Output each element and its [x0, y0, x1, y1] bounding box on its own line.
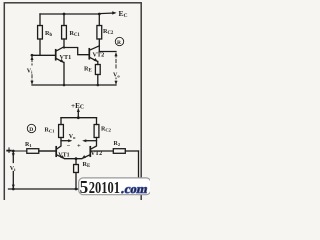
- svg-text:VT1: VT1: [60, 54, 72, 61]
- resistor RE bottom: [75, 159, 77, 165]
- transistor VT2: [88, 49, 90, 59]
- svg-text:20101: 20101: [89, 178, 120, 197]
- wire Vo left lead with arrow: [61, 140, 70, 142]
- node Vi junction: [31, 54, 34, 57]
- label Vo top: [113, 69, 122, 78]
- svg-text:5: 5: [80, 177, 89, 197]
- wire Vo indicator dashed: [115, 54, 117, 82]
- wire right drop to ground rail: [138, 151, 140, 189]
- svg-text:VT1: VT1: [58, 153, 69, 159]
- wire top supply rail: [40, 13, 99, 15]
- node Vi junction bottom: [12, 150, 15, 153]
- wire Vi indicator bottom: [12, 151, 14, 163]
- wire bottom ground rail: [9, 188, 139, 190]
- svg-text:VT2: VT2: [93, 51, 105, 58]
- svg-text:RC2: RC2: [101, 127, 112, 133]
- wire EC stub with up arrow: [77, 111, 79, 118]
- wire Vo tap from VT2 collector: [99, 51, 116, 53]
- resistor RE: [95, 65, 100, 75]
- resistor RC2 bottom: [96, 118, 98, 125]
- wire Vi indicator dashed: [31, 59, 33, 83]
- svg-text:−: −: [67, 143, 71, 150]
- svg-text:+: +: [77, 143, 81, 150]
- wire EC arrow: [99, 12, 114, 15]
- svg-text:VT2: VT2: [91, 151, 102, 157]
- resistor RC2: [98, 13, 101, 16]
- wire coupling VT1 collector to VT2 base: [64, 48, 89, 55]
- label Vi top: [27, 66, 35, 74]
- svg-text:.com: .com: [120, 182, 149, 196]
- resistor RC1 bottom: [60, 118, 62, 125]
- transistor VT1 bottom: [55, 147, 57, 156]
- svg-text:Vi: Vi: [10, 166, 16, 172]
- transistor VT1: [55, 50, 57, 60]
- border frame: [4, 3, 141, 213]
- svg-text:R1: R1: [25, 142, 32, 148]
- circled D mark: [27, 124, 35, 132]
- wire bottom rail top circuit: [32, 84, 116, 86]
- resistor Rb: [39, 14, 41, 26]
- svg-text:RC1: RC1: [45, 128, 56, 134]
- circled R mark: [115, 37, 123, 45]
- svg-text:Vo: Vo: [69, 134, 76, 140]
- resistor R1: [7, 150, 27, 152]
- wire emitter rail bottom: [65, 158, 82, 160]
- label plus input: [8, 148, 10, 153]
- transistor VT2 bottom: [89, 147, 91, 156]
- node EC arrowhead: [112, 11, 116, 14]
- svg-text:D: D: [29, 127, 33, 133]
- wire top rail bottom circuit: [61, 117, 97, 119]
- resistor RC1: [63, 13, 66, 16]
- svg-text:Vi: Vi: [27, 69, 33, 75]
- watermark 520101.com: [79, 177, 151, 197]
- svg-text:R2: R2: [114, 141, 121, 147]
- svg-text:Vo: Vo: [113, 73, 120, 79]
- wire Vo right lead with arrow: [85, 140, 97, 142]
